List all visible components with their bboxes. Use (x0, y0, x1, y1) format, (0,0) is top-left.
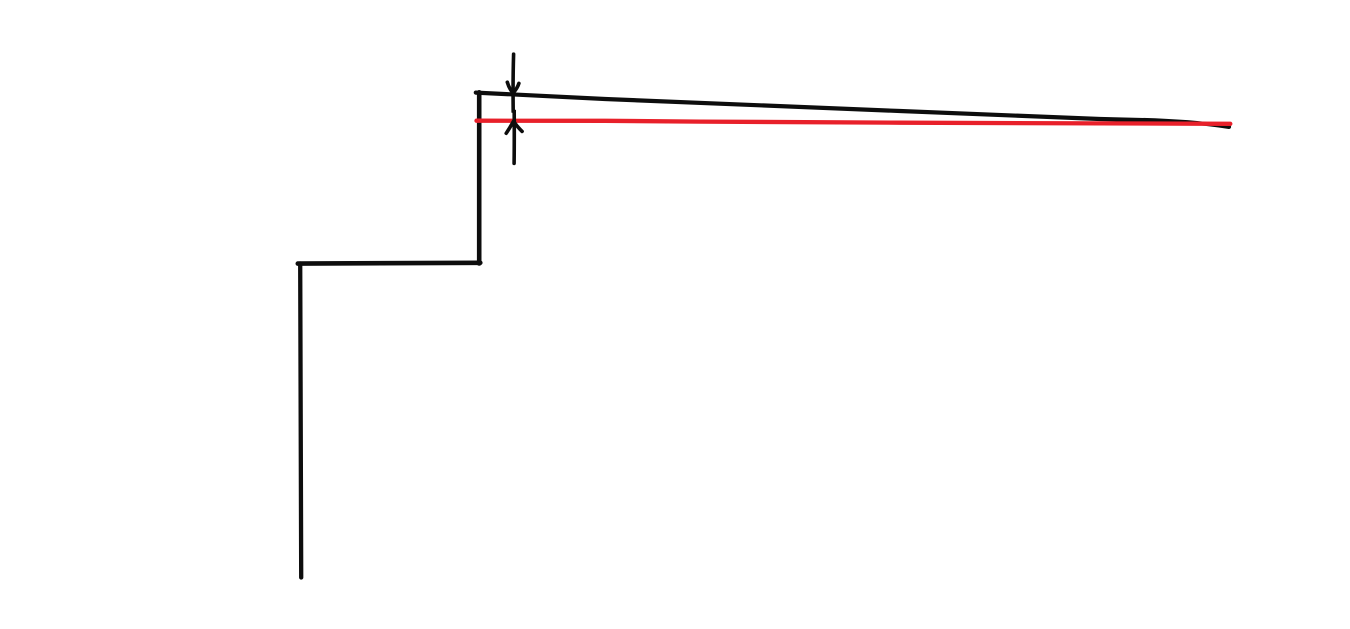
node A: vertical dimension line shaft (513, 54, 514, 163)
wire: left vertical segment of black step profile (300, 264, 301, 578)
wire: right vertical segment of black step profile (477, 92, 482, 263)
wire: downward arrowhead on dimension line (507, 82, 519, 93)
wire: horizontal segment of black step profile (298, 260, 481, 265)
wire: upward arrowhead on dimension line (506, 121, 522, 133)
wire: long red horizontal line (477, 121, 1231, 124)
wire: long slanted black top line (476, 93, 1229, 127)
